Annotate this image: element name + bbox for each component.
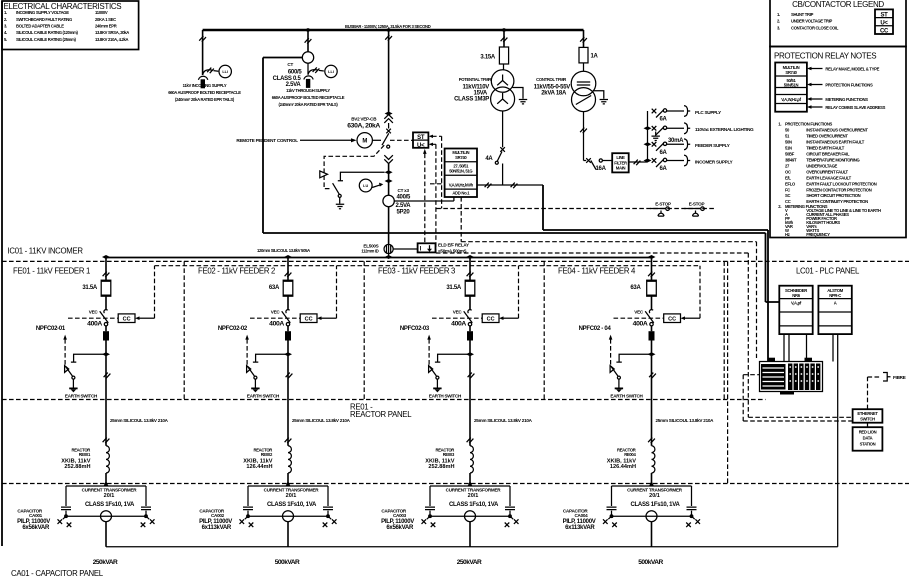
svg-text:FREQUENCY: FREQUENCY: [806, 232, 830, 237]
svg-text:IC01 - 11KV INCOMER: IC01 - 11KV INCOMER: [8, 246, 84, 255]
svg-text:UNDERVOLTAGE: UNDERVOLTAGE: [806, 163, 837, 168]
svg-text:RE001: RE001: [79, 452, 91, 457]
svg-text:CB/CONTACTOR LEGEND: CB/CONTACTOR LEGEND: [792, 0, 884, 9]
svg-text:POTENTIAL TFMR: POTENTIAL TFMR: [459, 77, 492, 82]
svg-text:CC: CC: [880, 29, 889, 35]
svg-text:CIRCUIT BREAKER FAIL: CIRCUIT BREAKER FAIL: [806, 151, 850, 156]
svg-text:51N: 51N: [785, 145, 792, 150]
svg-text:1.: 1.: [778, 121, 781, 126]
svg-text:V,A,W,Hz,pf: V,A,W,Hz,pf: [781, 97, 801, 102]
svg-text:2.: 2.: [778, 204, 781, 209]
svg-text:CT x3: CT x3: [398, 188, 410, 193]
svg-text:FIBRE: FIBRE: [893, 375, 906, 380]
svg-text:20KA 1 SEC: 20KA 1 SEC: [95, 17, 116, 22]
svg-text:6A: 6A: [660, 150, 668, 156]
svg-text:ETHERNET: ETHERNET: [857, 411, 878, 416]
svg-text:CONTROL TFMR: CONTROL TFMR: [536, 77, 566, 82]
svg-text:1.: 1.: [777, 12, 780, 17]
svg-text:UNDER VOLTAGE TRIP: UNDER VOLTAGE TRIP: [791, 19, 832, 24]
svg-text:5P20: 5P20: [397, 209, 411, 215]
svg-text:FEEDER SUPPLY: FEEDER SUPPLY: [695, 143, 730, 148]
svg-text:CONTACTOR CLOSE COIL: CONTACTOR CLOSE COIL: [791, 25, 839, 30]
svg-text:50BF: 50BF: [785, 151, 795, 156]
svg-text:2.: 2.: [777, 19, 780, 24]
svg-text:CT: CT: [287, 62, 293, 67]
svg-text:30mA: 30mA: [668, 138, 684, 144]
svg-text:31.5A: 31.5A: [446, 285, 462, 291]
svg-text:RELAY MAKE, MODEL & TYPE: RELAY MAKE, MODEL & TYPE: [825, 67, 879, 72]
svg-text:6x56kVAR: 6x56kVAR: [22, 525, 50, 531]
svg-text:FROZEN CONTACTOR PROTECTION: FROZEN CONTACTOR PROTECTION: [806, 187, 872, 192]
svg-text:V,A,pf: V,A,pf: [791, 301, 802, 306]
svg-text:252.88mH: 252.88mH: [64, 464, 90, 470]
svg-text:3.: 3.: [777, 25, 780, 30]
svg-text:V,A,W,Hz,kWh: V,A,W,Hz,kWh: [449, 182, 474, 187]
svg-text:RELAY COMMS SLAVE ADDRESS: RELAY COMMS SLAVE ADDRESS: [825, 105, 885, 110]
svg-text:EARTH LEAKAGE FAULT: EARTH LEAKAGE FAULT: [806, 175, 851, 180]
svg-text:SWITCHBOARD FAULT RATING: SWITCHBOARD FAULT RATING: [16, 17, 72, 22]
svg-text:RE004: RE004: [624, 452, 636, 457]
svg-text:M: M: [362, 139, 367, 145]
svg-text:ADD No.1: ADD No.1: [452, 191, 470, 196]
svg-text:250kVAR: 250kVAR: [457, 559, 482, 566]
svg-text:EARTH FAULT LOCKOUT PROTECTION: EARTH FAULT LOCKOUT PROTECTION: [806, 181, 877, 186]
svg-text:27: 27: [785, 163, 790, 168]
svg-text:6A: 6A: [660, 166, 668, 172]
svg-text:FILTER: FILTER: [614, 160, 627, 165]
svg-text:BV2 VEP-CB: BV2 VEP-CB: [351, 117, 377, 122]
svg-text:TIMED EARTH FAULT: TIMED EARTH FAULT: [806, 145, 845, 150]
svg-text:REACTOR PANEL: REACTOR PANEL: [350, 410, 412, 419]
svg-text:BUSBAR - 11000V, 1250A, 31.5kA: BUSBAR - 11000V, 1250A, 31.5kA FOR 3 SEC…: [345, 24, 431, 29]
svg-text:SHUNT TRIP: SHUNT TRIP: [791, 12, 814, 17]
svg-text:NPR-C: NPR-C: [829, 293, 841, 298]
svg-text:SHORT CIRCUIT PROTECTION: SHORT CIRCUIT PROTECTION: [806, 193, 860, 198]
svg-text:50: 50: [785, 127, 790, 132]
svg-text:CA01 - CAPACITOR PANEL: CA01 - CAPACITOR PANEL: [11, 569, 104, 578]
svg-text:630A, 20kA: 630A, 20kA: [347, 122, 380, 129]
svg-text:15VA: 15VA: [474, 90, 488, 96]
svg-text:ST: ST: [880, 12, 888, 18]
svg-text:PROTECTION FUNCTIONS: PROTECTION FUNCTIONS: [825, 83, 873, 88]
svg-text:OC: OC: [785, 169, 791, 174]
svg-text:4.: 4.: [4, 30, 7, 35]
svg-text:51: 51: [785, 133, 790, 138]
svg-text:NR6: NR6: [792, 293, 800, 298]
svg-text:4A: 4A: [485, 156, 493, 162]
svg-text:RED LION: RED LION: [859, 429, 877, 434]
svg-text:FE03 - 11kV FEEDER 3: FE03 - 11kV FEEDER 3: [378, 267, 455, 276]
svg-text:CLASS 1M3P: CLASS 1M3P: [454, 97, 489, 103]
svg-text:13.8KV SRSA, 20kA: 13.8KV SRSA, 20kA: [95, 30, 129, 35]
svg-text:LC01 - PLC PANEL: LC01 - PLC PANEL: [796, 267, 860, 276]
svg-text:SILICOUL CABLE RATING (120mm): SILICOUL CABLE RATING (120mm): [16, 30, 79, 35]
svg-text:DATA: DATA: [863, 435, 873, 440]
svg-text:6x113kVAR: 6x113kVAR: [565, 525, 595, 531]
svg-text:METERING FUNCTIONS: METERING FUNCTIONS: [825, 97, 868, 102]
svg-text:INCOMER SUPPLY: INCOMER SUPPLY: [695, 159, 733, 164]
svg-text:NPFC02-01: NPFC02-01: [36, 326, 66, 332]
svg-text:E/L: E/L: [785, 175, 791, 180]
svg-text:1A: 1A: [591, 54, 599, 60]
svg-text:INSTANTANEOUS EARTH FAULT: INSTANTANEOUS EARTH FAULT: [806, 139, 865, 144]
svg-text:50N/51N, 51G: 50N/51N, 51G: [449, 169, 472, 174]
svg-text:110Vac EXTERNAL LIGHTING: 110Vac EXTERNAL LIGHTING: [695, 127, 754, 132]
svg-text:FE02 - 11kV FEEDER 2: FE02 - 11kV FEEDER 2: [198, 267, 275, 276]
svg-text:3.15A: 3.15A: [480, 55, 496, 61]
svg-text:13.8KV 210A, 4.2kA: 13.8KV 210A, 4.2kA: [95, 37, 129, 42]
svg-text:PROTECTION RELAY NOTES: PROTECTION RELAY NOTES: [774, 52, 876, 61]
svg-text:CA004: CA004: [574, 513, 588, 518]
svg-text:FC: FC: [785, 187, 790, 192]
svg-text:U<: U<: [880, 21, 888, 27]
svg-text:38/49T: 38/49T: [785, 157, 797, 162]
svg-text:6x56kVAR: 6x56kVAR: [386, 525, 414, 531]
svg-text:NPFC02-03: NPFC02-03: [400, 326, 430, 332]
svg-text:126.44mH: 126.44mH: [610, 464, 636, 470]
svg-text:CA003: CA003: [393, 513, 407, 518]
svg-text:1.: 1.: [4, 10, 7, 15]
svg-text:112mm ID: 112mm ID: [361, 249, 378, 254]
svg-text:(240mm² 20kA RATED EPR TAILS): (240mm² 20kA RATED EPR TAILS): [175, 97, 235, 102]
svg-text:5.: 5.: [4, 37, 7, 42]
svg-text:FE01 - 11kV FEEDER 1: FE01 - 11kV FEEDER 1: [13, 267, 90, 276]
svg-text:LU: LU: [363, 184, 368, 188]
svg-text:MAIN: MAIN: [616, 166, 626, 171]
svg-text:11kV/55-0-55V: 11kV/55-0-55V: [534, 84, 571, 90]
svg-text:11000V: 11000V: [95, 10, 108, 15]
svg-text:31.5A: 31.5A: [82, 285, 98, 291]
svg-text:INCOMING SUPPLY VOLTAGE: INCOMING SUPPLY VOLTAGE: [16, 10, 69, 15]
svg-text:Hz: Hz: [785, 232, 790, 237]
svg-text:6A: 6A: [660, 117, 668, 123]
svg-text:240mm EPR: 240mm EPR: [95, 23, 117, 28]
svg-text:E-STOP: E-STOP: [689, 201, 705, 206]
svg-text:6x113kVAR: 6x113kVAR: [202, 525, 232, 531]
svg-text:RE002: RE002: [261, 452, 273, 457]
svg-text:2.5VA: 2.5VA: [396, 203, 412, 209]
svg-text:63A: 63A: [630, 285, 641, 291]
svg-text:E-STOP: E-STOP: [655, 201, 671, 206]
svg-text:INSTANTANEOUS OVERCURRENT: INSTANTANEOUS OVERCURRENT: [806, 127, 868, 132]
svg-text:660A AUSPROOF BOLTED RECEPTACL: 660A AUSPROOF BOLTED RECEPTACLE: [272, 95, 345, 100]
svg-text:EFLO: EFLO: [785, 181, 796, 186]
svg-text:120mm SILICOUL 13.8kV 505A: 120mm SILICOUL 13.8kV 505A: [257, 248, 310, 253]
svg-text:TIMED OVERCURRENT: TIMED OVERCURRENT: [806, 133, 848, 138]
svg-text:STATION: STATION: [860, 441, 876, 446]
svg-text:11kV THROUGH SUPPLY: 11kV THROUGH SUPPLY: [286, 88, 330, 93]
svg-text:SWITCH: SWITCH: [860, 417, 875, 422]
svg-text:2.: 2.: [4, 17, 7, 22]
svg-text:U<: U<: [417, 143, 425, 149]
svg-text:CA002: CA002: [211, 513, 225, 518]
svg-text:NPFC02 - 04: NPFC02 - 04: [579, 326, 612, 332]
svg-text:500kVAR: 500kVAR: [275, 559, 300, 566]
svg-text:250kVAR: 250kVAR: [93, 559, 118, 566]
svg-text:252.88mH: 252.88mH: [428, 464, 454, 470]
svg-text:TEMPERATURE MONITORING: TEMPERATURE MONITORING: [806, 157, 859, 162]
svg-text:RE003: RE003: [443, 452, 455, 457]
svg-text:ST: ST: [417, 135, 425, 141]
svg-text:50N/51N: 50N/51N: [784, 83, 799, 88]
svg-text:500kVAR: 500kVAR: [638, 559, 663, 566]
svg-text:27, 50/51: 27, 50/51: [453, 163, 469, 168]
svg-text:SC: SC: [785, 193, 790, 198]
svg-text:REMOTE PENDENT CONTROL: REMOTE PENDENT CONTROL: [236, 138, 298, 143]
svg-text:11kV INCOMING SUPPLY: 11kV INCOMING SUPPLY: [183, 83, 227, 88]
svg-text:SILICOUL CABLE RATING (25mm): SILICOUL CABLE RATING (25mm): [16, 37, 77, 42]
svg-text:126.44mH: 126.44mH: [246, 464, 272, 470]
svg-text:NPFC02-02: NPFC02-02: [218, 326, 248, 332]
svg-text:3.: 3.: [4, 23, 7, 28]
svg-text:(240mm² 20kA RATED EPR TAILS): (240mm² 20kA RATED EPR TAILS): [279, 102, 339, 107]
svg-text:FE04 - 11kV FEEDER 4: FE04 - 11kV FEEDER 4: [558, 267, 636, 276]
svg-text:63A: 63A: [269, 285, 280, 291]
svg-text:<50mA 500mS: <50mA 500mS: [438, 249, 467, 254]
svg-text:600/5: 600/5: [288, 70, 303, 76]
svg-text:PLC SUPPLY: PLC SUPPLY: [695, 110, 721, 115]
svg-text:2kVA 18A: 2kVA 18A: [541, 91, 567, 97]
svg-text:LINE: LINE: [616, 155, 625, 160]
svg-text:OVERCURRENT FAULT: OVERCURRENT FAULT: [806, 169, 848, 174]
svg-text:CA001: CA001: [29, 513, 43, 518]
svg-text:660A AUSPROOF BOLTED RECEPTACL: 660A AUSPROOF BOLTED RECEPTACLE: [168, 90, 241, 95]
svg-text:BOLTED ADAPTER CABLE: BOLTED ADAPTER CABLE: [16, 23, 64, 28]
svg-text:A: A: [834, 301, 837, 306]
svg-text:SR740: SR740: [785, 70, 797, 75]
svg-text:PROTECTION FUNCTIONS: PROTECTION FUNCTIONS: [785, 121, 833, 126]
svg-text:SR740: SR740: [455, 155, 467, 160]
svg-text:16A: 16A: [596, 166, 607, 172]
svg-text:ELD E/F RELAY: ELD E/F RELAY: [438, 243, 469, 248]
svg-text:400/5: 400/5: [397, 194, 412, 200]
svg-text:50N: 50N: [785, 139, 792, 144]
